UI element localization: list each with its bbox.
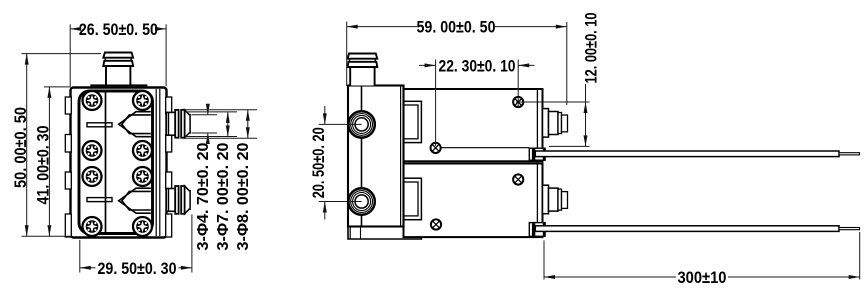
clamp bracket upper [404, 101, 422, 142]
dim 12.00 extension lines [516, 101, 590, 103]
svg-text:3-Φ8. 00±0. 20: 3-Φ8. 00±0. 20 [235, 143, 252, 251]
right mounting tab 4 [166, 214, 172, 237]
hose barb top [103, 53, 133, 85]
arrow dim 20.50 bottom [323, 202, 327, 213]
svg-text:50. 00±0. 50: 50. 00±0. 50 [11, 107, 30, 188]
dim 41.00 line [48, 87, 50, 236]
hose barb right lower [167, 186, 191, 214]
clamp bracket lower [404, 178, 422, 220]
arrow dim 41.00 bottom [47, 225, 51, 236]
hose barb right upper [167, 110, 191, 138]
body wall line near right edge [159, 89, 161, 236]
arrow dim 59.00 left [347, 25, 358, 29]
screw A7 [83, 217, 102, 236]
screw A5 [83, 167, 102, 186]
dim phi8.00 line [247, 110, 249, 139]
arrow dim 22.30 right [518, 63, 529, 67]
terminal lower [543, 185, 568, 214]
arrow dim phi7.00 top [226, 112, 230, 123]
dim 41.00 extension line top [44, 86, 71, 88]
port boss chevron lower [119, 188, 151, 213]
left mounting tab 1 [65, 97, 71, 114]
dim 59.00 extension lines [346, 22, 348, 87]
screw B2 [513, 97, 523, 107]
head/motor interface line [400, 86, 402, 227]
arrow dim 29.50 right [181, 266, 192, 270]
dim 20.50 extension lines [319, 123, 362, 125]
svg-text:3-Φ7. 00±0. 20: 3-Φ7. 00±0. 20 [215, 143, 232, 251]
dim 300 extension lines [543, 241, 545, 280]
dim 20.50 line [324, 106, 326, 124]
screw A2 [133, 91, 152, 110]
dim 50.00 extension lines [22, 53, 102, 55]
right mounting tab 2 [166, 135, 172, 153]
cover centre parting line [105, 93, 107, 233]
arrow dim 20.50 top [323, 113, 327, 124]
screw B1 [431, 143, 441, 153]
arrow dim phi7.00 bottom [226, 126, 230, 137]
screw A6 [133, 167, 152, 186]
left mounting tab 2 [65, 135, 71, 153]
port boss chevron upper [119, 112, 151, 137]
valve rib upper [87, 123, 112, 127]
lead wire upper [535, 151, 839, 157]
arrow dim phi8.00 top [246, 110, 250, 121]
right mounting tab 1 [166, 97, 172, 114]
dim 29.50 line [80, 267, 96, 269]
arrow dim 300 right [849, 275, 860, 279]
pump head block [348, 86, 404, 227]
svg-text:22. 30±0. 10: 22. 30±0. 10 [439, 57, 516, 76]
bottom skirt [348, 227, 421, 240]
dim phi7.00 line [227, 112, 229, 137]
dim 22.30 line with outside arrows [419, 64, 436, 66]
arrow dim 12.00 bottom [584, 135, 588, 146]
dim phi7.00 extension lines [185, 111, 237, 113]
screw B4 [513, 174, 523, 184]
terminal upper [543, 109, 568, 138]
svg-text:20. 50±0. 20: 20. 50±0. 20 [309, 127, 328, 198]
arrow dim phi8.00 bottom [246, 127, 250, 138]
svg-text:41. 00±0. 30: 41. 00±0. 30 [34, 126, 53, 205]
screw B3 [431, 219, 441, 229]
screw A4 [133, 141, 152, 160]
lead wire lower [535, 226, 839, 232]
wire exit notch upper [529, 148, 545, 160]
dim 59.00 line [347, 26, 417, 28]
dim 50.00 line [26, 54, 28, 237]
arrow dim 41.00 top [47, 87, 51, 98]
screw A8 [133, 217, 152, 236]
dim 26.50 line [70, 28, 78, 30]
arrow dim 12.00 top [584, 102, 588, 113]
arrow dim phi4.70 bottom [206, 133, 210, 144]
motor housing lower section [404, 164, 543, 238]
dim 26.50 extension lines [69, 24, 71, 86]
screw A3 [83, 141, 102, 160]
svg-text:29. 50±0. 30: 29. 50±0. 30 [98, 259, 177, 278]
svg-text:300±10: 300±10 [678, 268, 727, 287]
dim 12.00 line [585, 84, 587, 146]
arrow dim 59.00 right [556, 25, 567, 29]
top hose barb side view [348, 54, 378, 86]
arrow dim 50.00 bottom [25, 225, 29, 236]
port circle upper [348, 111, 374, 137]
svg-text:26. 50±0. 50: 26. 50±0. 50 [79, 20, 158, 39]
arrow dim 29.50 left [80, 266, 91, 270]
svg-text:59. 00±0. 50: 59. 00±0. 50 [417, 18, 496, 37]
wire exit notch lower [529, 223, 545, 237]
dim 29.50 extension lines [79, 240, 81, 273]
valve rib lower [87, 198, 112, 202]
arrow dim 50.00 top [25, 54, 29, 65]
arrow dim phi4.70 top [206, 104, 210, 115]
motor end cap seam [536, 89, 538, 237]
pump body outer housing [71, 88, 167, 238]
dim phi4.70 line [207, 105, 209, 115]
dim phi8.00 extension lines [185, 109, 257, 111]
svg-text:3-Φ4. 70±0. 20: 3-Φ4. 70±0. 20 [195, 143, 212, 251]
dim phi4.70 extension lines [192, 114, 218, 116]
arrow dim 26.50 left [70, 27, 81, 31]
arrow dim 22.30 left [425, 63, 436, 67]
top plate flange bar [90, 84, 147, 86]
left mounting tab 3 [65, 172, 71, 189]
left mounting tab 4 [65, 214, 71, 237]
pump head cover plate [79, 91, 153, 234]
svg-text:12. 00±0. 10: 12. 00±0. 10 [582, 13, 601, 84]
motor housing upper section [404, 89, 543, 161]
head cover edge line [361, 86, 363, 227]
arrow dim 26.50 right [155, 27, 166, 31]
port circle lower [348, 188, 374, 214]
dim 300 line [544, 276, 676, 278]
screw A1 [83, 91, 102, 110]
crank chamber line upper [441, 147, 529, 149]
arrow dim 300 left [544, 275, 555, 279]
right mounting tab 3 [166, 172, 172, 189]
body wall line right of cover [155, 89, 157, 236]
dim 22.30 extension lines [435, 60, 437, 147]
